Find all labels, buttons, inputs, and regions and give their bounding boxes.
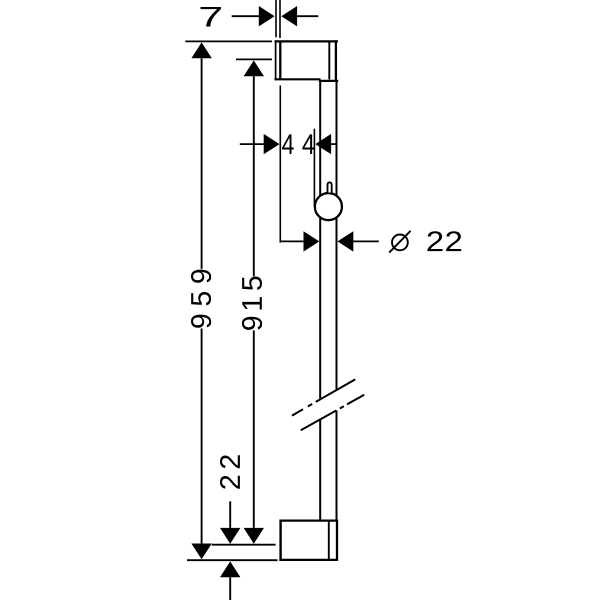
- bottom bracket inner edge: [328, 521, 330, 560]
- break line lower diagonal: [301, 395, 364, 430]
- wire rail tube right edge upper: [336, 81, 338, 390]
- wire extension line x280 mid: [279, 86, 281, 243]
- break line upper diagonal: [292, 379, 355, 415]
- label diameter-22 digit2: [446, 231, 461, 251]
- top bracket inner right edge: [328, 41, 330, 79]
- top bracket wall thin edge: [275, 40, 277, 80]
- wire rail tube right edge lower: [336, 410, 338, 520]
- wire extension line bracket-back x280: [279, 0, 281, 38]
- label 959 digit 5: [191, 292, 211, 306]
- label 915 digit 9 bottom: [242, 317, 262, 330]
- wire extension line 915 top: [236, 58, 272, 60]
- arrow dim-915 down-pointing: [244, 528, 264, 544]
- top bracket collar bottom: [319, 80, 338, 82]
- arrow dim-7 left-pointing: [281, 6, 297, 26]
- arrow dim-959 up-pointing: [191, 42, 211, 58]
- bottom bracket left edge: [279, 520, 281, 562]
- wire extension line bottom y560: [187, 559, 278, 561]
- label 44 digit1: [282, 134, 294, 154]
- wire dim-7 right line: [297, 15, 318, 17]
- top bracket back plate edge: [279, 41, 281, 79]
- arrow dim-915 up-pointing: [244, 60, 264, 76]
- diameter symbol: [389, 231, 410, 253]
- label 7: [201, 7, 221, 27]
- wire extension line 959 top: [185, 40, 272, 42]
- wire dim line 915 upper: [253, 76, 255, 276]
- wire dim line 22 upper: [229, 501, 231, 528]
- arrow dim-7 right-pointing: [259, 6, 275, 26]
- wire dim line 915 lower: [253, 330, 255, 528]
- wire dim-44 right line: [331, 143, 337, 145]
- arrow dim-d22 left-pointing: [338, 231, 354, 251]
- label 959 digit 9 bottom: [191, 315, 211, 328]
- wire dim-d22 left line: [281, 240, 304, 242]
- label 22-bottom digit2 bottom: [220, 476, 240, 489]
- wire dim line 959 upper: [201, 58, 203, 269]
- wire dim line 22 lower tail: [229, 577, 231, 600]
- arrow dim-22 up-pointing: [220, 561, 240, 577]
- bottom bracket top edge: [279, 519, 338, 521]
- label 915 digit 5 top: [242, 277, 262, 291]
- top bracket bottom edge: [275, 78, 321, 80]
- label 915 digit 1: [242, 297, 262, 309]
- wire rail tube left edge lower: [319, 419, 321, 520]
- top bracket right edge: [335, 40, 337, 81]
- slider circle: [315, 193, 342, 220]
- arrow dim-44 left-pointing: [315, 134, 331, 154]
- arrow dim-d22 right-pointing: [304, 231, 320, 251]
- label 44 digit2: [302, 134, 314, 154]
- arrow dim-44 right-pointing: [264, 134, 280, 154]
- wire rail tube left edge upper: [319, 81, 321, 400]
- wire dim-d22 right line: [353, 240, 379, 242]
- wire dim-7 left line: [232, 15, 259, 17]
- wire extension line 44 right x314: [313, 129, 315, 207]
- arrow dim-959 down-pointing: [191, 544, 211, 560]
- bottom bracket right edge: [336, 520, 338, 562]
- wire extension line wall x276: [275, 0, 277, 37]
- wire dim-44 left line: [240, 143, 264, 145]
- label 22-bottom digit2 top: [220, 455, 240, 468]
- bottom bracket bottom edge: [279, 559, 338, 561]
- wire extension line bottom y544: [212, 544, 276, 546]
- label diameter-22 digit1: [427, 231, 442, 251]
- arrow dim-22 down-pointing: [220, 528, 240, 544]
- slider knob: [328, 182, 332, 192]
- wire dim line 959 lower: [201, 329, 203, 544]
- top bracket top edge: [275, 40, 338, 42]
- label 959 digit 9 top: [191, 270, 211, 283]
